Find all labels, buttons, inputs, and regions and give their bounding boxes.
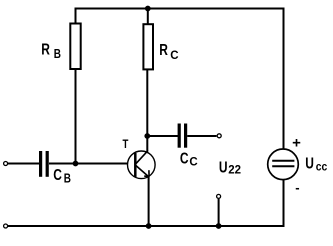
wire bottom rail xyxy=(8,225,285,227)
svg-text:cc: cc xyxy=(316,161,328,174)
junction dot top of R_C xyxy=(145,6,151,12)
svg-text:C: C xyxy=(180,149,189,167)
svg-text:T: T xyxy=(123,138,129,151)
svg-text:U: U xyxy=(305,154,314,172)
wire C_B to base xyxy=(49,163,135,165)
svg-text:22: 22 xyxy=(228,165,241,177)
svg-text:B: B xyxy=(64,172,71,185)
wire collector vertical xyxy=(146,136,148,151)
wire collector node to C_C xyxy=(147,135,178,137)
transistor emitter diagonal xyxy=(136,166,149,177)
resistor RB xyxy=(70,24,80,70)
wire input to C_B xyxy=(8,163,39,165)
junction dot base node xyxy=(73,161,79,167)
voltage source bar lower xyxy=(272,165,294,167)
resistor RC xyxy=(143,24,153,69)
wire R_C top lead xyxy=(147,9,149,25)
svg-text:R: R xyxy=(41,40,50,58)
wire C_C to output terminal xyxy=(187,135,216,137)
wire top rail xyxy=(75,8,285,10)
transistor base bar xyxy=(134,153,137,177)
transistor collector diagonal xyxy=(136,151,148,164)
svg-text:R: R xyxy=(159,40,168,58)
terminal input top-left xyxy=(4,162,8,166)
junction dot output bottom xyxy=(216,223,222,229)
wire emitter vertical xyxy=(148,177,150,226)
transistor emitter arrowhead barb vertical xyxy=(148,170,150,177)
capacitor CC plate 2 xyxy=(184,124,187,148)
svg-text:C: C xyxy=(189,156,197,168)
svg-text:+: + xyxy=(292,134,301,151)
terminal bottom-left xyxy=(4,224,8,228)
voltage source Ucc circle xyxy=(268,149,299,180)
svg-text:-: - xyxy=(295,180,299,195)
capacitor CB plate 1 xyxy=(39,151,42,177)
voltage source bar upper xyxy=(272,160,294,162)
svg-text:C: C xyxy=(170,50,178,62)
transistor T circle xyxy=(128,151,156,179)
svg-text:C: C xyxy=(53,165,62,183)
wire R_C bottom lead xyxy=(146,69,148,136)
wire R_B top lead xyxy=(75,8,77,24)
wire right vertical from top rail xyxy=(283,9,285,150)
terminal output bottom xyxy=(217,194,221,198)
wire R_B bottom lead xyxy=(75,69,77,163)
svg-text:U: U xyxy=(219,158,228,176)
junction dot collector node xyxy=(144,133,150,139)
transistor emitter arrowhead barb horizontal xyxy=(144,175,149,178)
wire right vertical to bottom rail xyxy=(283,180,285,228)
wire output bottom lead xyxy=(218,199,220,226)
capacitor CB plate 2 xyxy=(46,151,49,177)
terminal output top xyxy=(217,134,221,138)
junction dot emitter bottom xyxy=(146,223,152,229)
svg-text:B: B xyxy=(54,48,61,61)
capacitor CC plate 1 xyxy=(178,124,181,148)
